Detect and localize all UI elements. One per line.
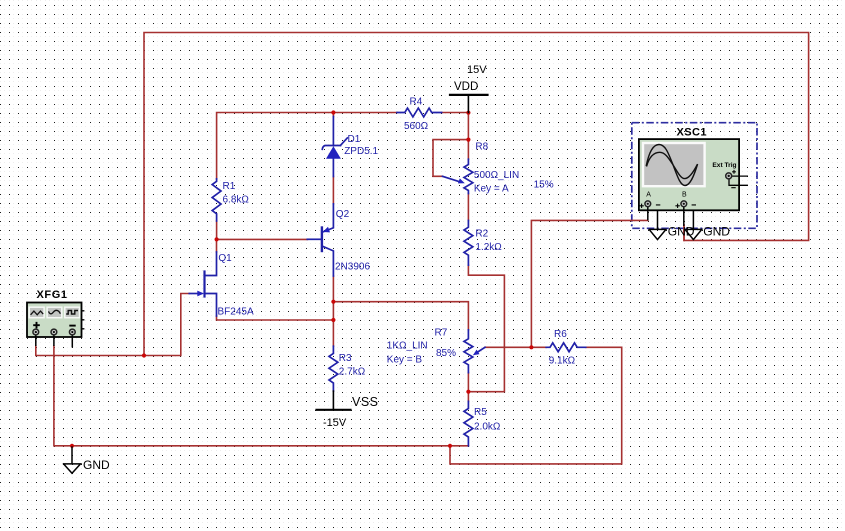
svg-text:1KΩ_LIN: 1KΩ_LIN — [387, 341, 428, 352]
potentiometer R7 arrowhead — [473, 350, 480, 356]
svg-text:2.0kΩ: 2.0kΩ — [474, 422, 501, 433]
wire R8 wiper loop — [433, 140, 468, 177]
wire scope A feed down to wiper node — [531, 220, 647, 347]
junction R8 top/wiper node — [466, 138, 470, 142]
svg-text:15V: 15V — [467, 64, 487, 76]
channel plus minus marks — [639, 204, 696, 208]
potentiometer R8 — [464, 159, 473, 193]
selection dash box around XSC1 — [632, 123, 757, 229]
svg-text:GND: GND — [83, 458, 110, 472]
junction Q1 source node — [331, 318, 335, 322]
wire R7 wiper to R6 left — [485, 346, 546, 348]
resistor R1 — [212, 179, 221, 221]
ext trig stubs — [729, 176, 748, 185]
plus mark — [33, 322, 40, 329]
svg-text:R1: R1 — [223, 181, 236, 192]
wire D1 cathode stub — [332, 113, 334, 117]
wire Q1 drain up to base node — [216, 239, 218, 252]
channel A terminal — [645, 201, 651, 207]
svg-text:Key = B: Key = B — [387, 355, 423, 366]
wire XFG1 plus terminal to bottom run — [36, 294, 190, 356]
svg-text:15%: 15% — [534, 180, 554, 191]
channel A stub — [647, 207, 649, 221]
svg-text:A: A — [646, 192, 651, 199]
minus mark — [69, 325, 75, 327]
resistor R2 — [464, 221, 473, 266]
XFG1 terminal stubs — [36, 335, 73, 348]
svg-text:VDD: VDD — [454, 81, 478, 93]
svg-text:2.7kΩ: 2.7kΩ — [339, 366, 366, 377]
potentiometer R8 wiper arrow — [443, 176, 460, 181]
wire R8 bottom to R2 top — [467, 194, 469, 221]
svg-text:R4: R4 — [410, 97, 423, 108]
potentiometer R7 wiper arrow — [477, 347, 486, 353]
junction R7 wiper/R6/scope A node — [529, 345, 533, 349]
function generator XFG1 — [27, 303, 84, 348]
wire R6 right down around to ground rail — [450, 347, 622, 464]
svg-text:Q2: Q2 — [336, 209, 350, 220]
wire VDD node down to R8 node — [467, 113, 469, 160]
zener diode D1 label pointer — [341, 138, 348, 145]
svg-text:R2: R2 — [475, 229, 488, 240]
channel B terminal — [681, 201, 687, 207]
zener diode D1 anode lead — [332, 159, 334, 177]
channel B stub — [683, 207, 685, 226]
transistor Q2 base bar — [321, 228, 323, 252]
junction VDD node — [466, 111, 470, 115]
square wave icon — [66, 311, 78, 315]
wire R4 right lead to VDD node — [442, 112, 469, 114]
transistor Q2 emitter arrowhead — [323, 227, 330, 233]
zener diode D1 cathode bar with wing — [322, 146, 340, 150]
svg-text:R3: R3 — [339, 353, 352, 364]
svg-text:ZPD5.1: ZPD5.1 — [344, 146, 378, 157]
ground symbol scope B — [685, 207, 702, 240]
svg-text:D1: D1 — [348, 134, 361, 145]
junction D1 cathode on VDD rail — [331, 110, 335, 114]
wire Q2 collector down through nodes to R3 — [332, 276, 334, 346]
XFG1 terminals — [33, 329, 75, 335]
svg-text:Ext Trig: Ext Trig — [712, 162, 736, 169]
svg-text:500Ω_LIN: 500Ω_LIN — [474, 170, 519, 181]
resistor R4 — [397, 108, 442, 117]
scope trace sine small — [647, 152, 698, 178]
wire collector node to R7 top — [333, 302, 468, 330]
junction Q2 collector to R7 node — [331, 300, 335, 304]
wire R1 top to VDD rail with D1 tap — [217, 113, 397, 179]
power VSS symbol — [317, 409, 351, 411]
svg-text:R7: R7 — [435, 328, 448, 339]
svg-text:R6: R6 — [554, 329, 567, 340]
svg-text:2N3906: 2N3906 — [335, 262, 370, 273]
svg-text:-15V: -15V — [323, 417, 347, 429]
zener diode D1 cathode lead — [332, 117, 334, 146]
svg-text:85%: 85% — [436, 348, 456, 359]
svg-text:B: B — [682, 192, 687, 199]
svg-text:BF245A: BF245A — [218, 306, 254, 317]
junction XFG output / feedback node — [142, 353, 146, 357]
wire scope B plus down to right loop — [683, 225, 685, 240]
svg-text:Key = A: Key = A — [474, 184, 509, 195]
transistor Q1 drain lead — [205, 252, 217, 276]
svg-text:1.2kΩ: 1.2kΩ — [475, 242, 502, 253]
junction R1/Q1 drain/Q2 base node — [215, 237, 219, 241]
wire XFG1 common terminal down to ground rail — [54, 346, 469, 446]
svg-text:VSS: VSS — [352, 395, 379, 409]
transistor Q2 base lead — [307, 238, 321, 240]
wire R7 bottom to R5 node — [467, 373, 469, 402]
oscilloscope XSC1 — [639, 139, 748, 226]
resistor R3 — [329, 346, 338, 391]
ext trig terminal — [726, 173, 732, 179]
svg-text:560Ω: 560Ω — [404, 121, 429, 132]
transistor Q1 gate lead — [189, 293, 201, 295]
svg-text:GND: GND — [703, 225, 730, 239]
svg-text:6.8kΩ: 6.8kΩ — [223, 195, 250, 206]
wire Q1 source to collector column — [217, 316, 334, 320]
scope trace sine large — [646, 145, 697, 186]
transistor Q1 source lead — [205, 294, 217, 317]
potentiometer R8 arrowhead — [458, 178, 465, 183]
wire R1 bottom to base node — [216, 221, 218, 239]
zener diode D1 triangle — [326, 146, 341, 159]
wire R2 bottom jog down to R5 node — [468, 265, 504, 392]
transistor Q1 gate arrowhead — [197, 291, 204, 297]
triangle wave icon — [31, 311, 44, 315]
transistor Q1 JFET channel — [203, 272, 205, 297]
svg-text:XFG1: XFG1 — [37, 289, 68, 301]
ground symbol bottom left — [64, 447, 81, 473]
svg-text:R5: R5 — [474, 407, 487, 418]
svg-text:XSC1: XSC1 — [677, 126, 707, 138]
svg-text:9.1kΩ: 9.1kΩ — [549, 356, 576, 367]
potentiometer R7 — [464, 330, 473, 373]
sine wave icon — [49, 310, 61, 314]
power VDD symbol — [450, 94, 488, 96]
svg-text:R8: R8 — [475, 142, 488, 153]
resistor R6 — [546, 343, 586, 352]
wire D1 anode to Q2 emitter — [332, 177, 334, 204]
svg-text:Q1: Q1 — [218, 253, 232, 264]
resistor R5 — [464, 401, 473, 445]
wire base node to Q2 base — [217, 238, 308, 240]
wire top rail from node above Q1 gate loop to right edge — [144, 33, 809, 356]
ground symbol scope A — [649, 207, 666, 240]
junction ground rail to R6 loop — [448, 444, 452, 448]
svg-text:GND: GND — [668, 225, 695, 239]
junction R7 bottom/R2/R5 node — [466, 390, 470, 394]
junction ground rail at GND — [70, 444, 74, 448]
transistor Q2 emitter lead — [324, 204, 334, 232]
transistor Q2 collector lead — [323, 246, 334, 276]
